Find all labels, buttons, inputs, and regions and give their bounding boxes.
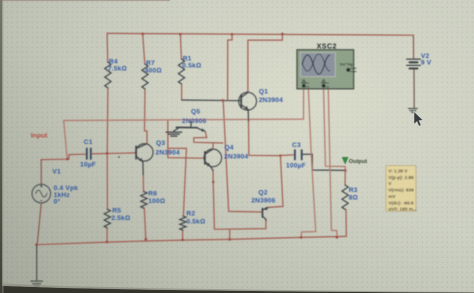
resistor R2 labels xyxy=(186,211,205,226)
wire rail to R7 xyxy=(143,34,145,64)
AC source V1 labels xyxy=(52,169,78,206)
transistor Q2 xyxy=(262,207,268,221)
node junction dot rail drop xyxy=(228,238,231,241)
wire R4 to base node xyxy=(106,88,109,153)
capacitor C1 labels xyxy=(80,139,96,168)
node junction dot output xyxy=(344,169,347,172)
transistor Q4 xyxy=(204,149,222,170)
wire R1 down xyxy=(181,84,183,100)
resistor R5 xyxy=(104,209,110,228)
node junction dot output-emitter xyxy=(279,154,281,156)
node junction dot rail R6 xyxy=(145,238,148,241)
capacitor C1 xyxy=(87,148,91,160)
transistor Q3 labels xyxy=(156,140,180,157)
battery V2 labels xyxy=(421,53,432,66)
transistor Q5 labels xyxy=(182,109,206,125)
transistor Q1 labels xyxy=(259,88,283,104)
ground at V1 xyxy=(30,245,43,288)
oscilloscope screen waveforms xyxy=(302,54,330,74)
wire C3 right to output junction xyxy=(302,154,345,170)
wire Q4 base line xyxy=(168,121,205,158)
wire rail to R1 xyxy=(180,34,181,59)
transistor Q4 labels xyxy=(224,145,248,161)
node tiny cross mark xyxy=(118,156,120,158)
resistor R3 xyxy=(342,185,348,209)
resistor R2 xyxy=(180,216,186,230)
ground at V2 xyxy=(408,109,418,113)
mouse cursor xyxy=(414,111,423,126)
ground at Q5 xyxy=(166,131,182,136)
node junction dot rail-stub xyxy=(231,33,234,36)
wire R7 to Q3 collector xyxy=(145,89,148,143)
resistor R6 labels xyxy=(148,191,165,205)
measurement tooltip xyxy=(386,166,417,212)
resistor R5 labels xyxy=(111,207,130,222)
wire ground rail xyxy=(37,236,347,244)
wire R3 top xyxy=(344,170,346,185)
transistor Q5 xyxy=(174,121,205,131)
wire R6 top xyxy=(142,175,144,192)
node junction dot base divider xyxy=(106,152,109,155)
node junction dot rail V1 xyxy=(35,243,38,246)
wire C1 to Q3 base xyxy=(91,153,136,154)
node junction dot rail B- xyxy=(336,236,339,239)
node junction dot rail A- xyxy=(300,236,303,239)
resistor R6 xyxy=(141,192,147,209)
resistor R4 labels xyxy=(108,58,127,72)
transistor Q3 xyxy=(136,144,153,175)
wire Q1 emitter to output node xyxy=(249,121,284,207)
wire R2 bottom xyxy=(182,230,184,240)
node junction dot rail-R1 xyxy=(179,33,182,36)
wire scope B+ to output xyxy=(324,89,346,170)
resistor R7 xyxy=(142,64,148,89)
wire drop to ground rail xyxy=(229,229,231,239)
wire Q4 emitter down xyxy=(213,170,266,229)
wire output node to C3 xyxy=(280,154,294,157)
wire R1 to Q1 base xyxy=(182,99,241,102)
wire rail to Q1 collector xyxy=(248,34,283,91)
wire R2 top branch xyxy=(168,148,187,216)
resistor R7 labels xyxy=(145,60,162,74)
wire rail to R4 xyxy=(106,33,109,62)
node junction dot input scope tap xyxy=(66,158,69,161)
resistor R1 xyxy=(178,59,184,84)
wire R3 bottom xyxy=(345,209,347,236)
node junction dot rail R2 xyxy=(181,239,184,242)
wire R6 bottom xyxy=(144,208,146,239)
transistor Q1 xyxy=(239,92,257,122)
wire R5 top xyxy=(106,153,108,209)
oscilloscope channel B terminal xyxy=(322,80,329,88)
wire scope B- to ground rail xyxy=(328,89,337,237)
wire scope A+ to input xyxy=(64,89,304,159)
node junction dot Q4 emitter xyxy=(212,181,214,183)
battery V2 xyxy=(407,35,421,108)
wire Q4 collector up xyxy=(212,143,214,149)
wire R5 bottom xyxy=(106,228,108,242)
monitor left bezel xyxy=(0,0,2,293)
wire VCC top rail xyxy=(107,33,413,35)
wire input node xyxy=(41,154,86,159)
wire Q5 emitter to bias vertical xyxy=(194,131,223,143)
capacitor C3 labels xyxy=(286,142,306,169)
wire Q1-base node down to Q2 base xyxy=(223,101,262,212)
transistor Q2 labels xyxy=(251,189,275,204)
resistor R3 labels xyxy=(349,187,358,202)
probe Output xyxy=(342,157,367,165)
oscilloscope XSC2 box xyxy=(297,50,354,89)
node junction dot rail-R7 xyxy=(141,33,144,36)
node junction dot rail R5 xyxy=(106,241,109,244)
oscilloscope Ext Trig terminal xyxy=(340,62,356,72)
wire scope A- to ground rail xyxy=(301,89,316,237)
capacitor C3 xyxy=(295,149,302,160)
top edge shadow line xyxy=(0,0,170,1)
resistor R4 xyxy=(105,62,111,88)
monitor bottom bezel xyxy=(0,286,474,293)
oscilloscope channel A terminal xyxy=(302,80,309,88)
AC source V1 xyxy=(32,160,51,245)
node junction dot rail-Q1c xyxy=(281,33,284,36)
resistor R1 labels xyxy=(182,55,201,69)
node junction dot Q1 base xyxy=(222,99,225,102)
wire rail stub to base line xyxy=(228,34,233,100)
